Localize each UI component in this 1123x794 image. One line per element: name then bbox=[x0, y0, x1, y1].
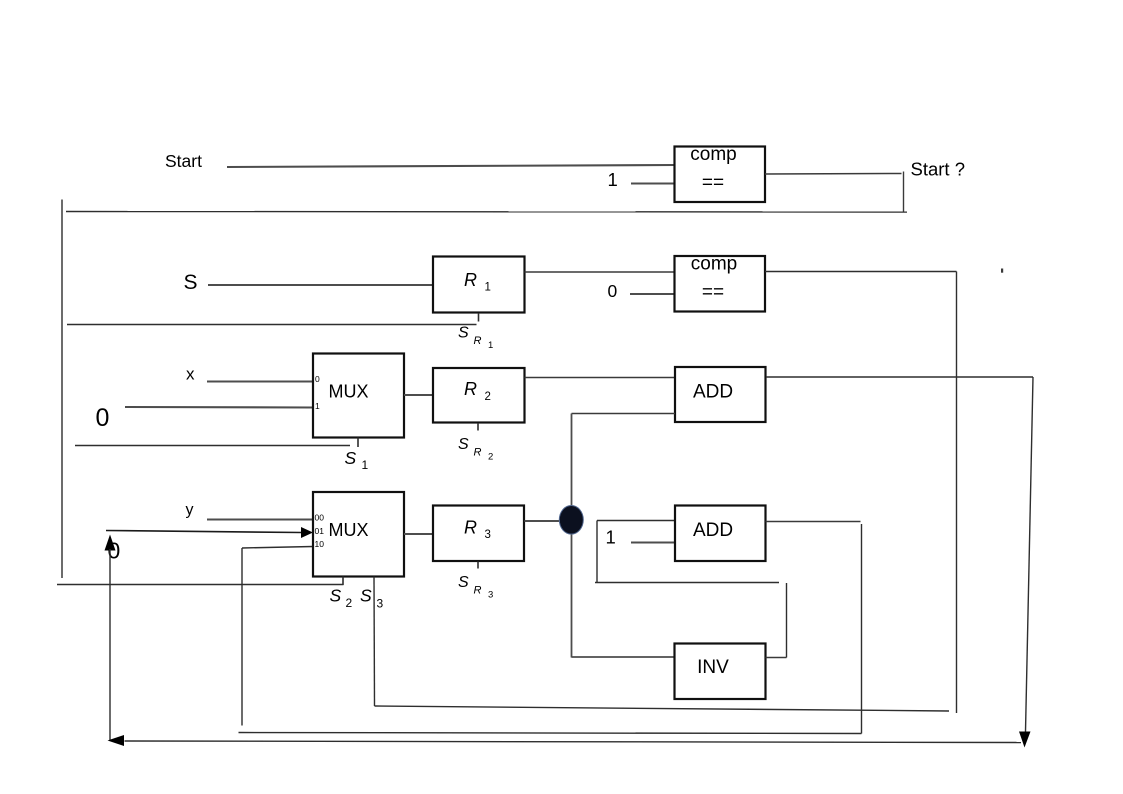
svg-text:2: 2 bbox=[488, 452, 493, 463]
MUX M1 box bbox=[313, 354, 404, 438]
wire R2 select stub bbox=[477, 423, 479, 431]
arrowhead right into MUX2 bbox=[301, 527, 313, 538]
svg-text:S: S bbox=[458, 574, 469, 591]
wire MUX2 to R3 bbox=[404, 533, 433, 535]
svg-text:S: S bbox=[458, 436, 469, 453]
svg-text:R: R bbox=[474, 585, 482, 597]
wire vertical from bottom arrow up bbox=[109, 549, 111, 741]
svg-text:R: R bbox=[464, 270, 477, 290]
svg-text:comp: comp bbox=[691, 254, 737, 275]
wire 1 to comp1 bbox=[631, 182, 675, 184]
wire 1 to ADD2 bbox=[631, 541, 675, 543]
svg-text:R: R bbox=[474, 447, 482, 459]
wire ADD1 output down bbox=[1026, 377, 1034, 732]
register R1 box bbox=[433, 257, 525, 313]
wire S1 line bbox=[75, 445, 350, 447]
wire R1 output to comp2 bbox=[525, 271, 675, 273]
arrowhead down bbox=[1019, 732, 1031, 748]
svg-text:1: 1 bbox=[485, 282, 491, 294]
ADD A1 box bbox=[675, 367, 766, 422]
comp U2 box bbox=[675, 256, 766, 312]
svg-text:1: 1 bbox=[608, 169, 618, 190]
wire comp2 feedback vertical bbox=[956, 272, 958, 714]
wire comp1 output bbox=[765, 173, 902, 176]
svg-text:R: R bbox=[464, 518, 477, 538]
svg-text:S: S bbox=[330, 586, 342, 606]
wire 0 to comp2 bbox=[630, 293, 675, 295]
ADD A2 box bbox=[675, 506, 766, 562]
svg-text:comp: comp bbox=[690, 144, 736, 165]
wire S3 feedback horizontal bbox=[375, 706, 950, 711]
svg-text:S: S bbox=[458, 324, 469, 341]
svg-text:Start: Start bbox=[165, 151, 202, 171]
stray tick mark bbox=[1001, 269, 1003, 273]
wire comp1 output corner down bbox=[903, 172, 905, 212]
wire vertical x242 bbox=[241, 548, 243, 726]
svg-text:INV: INV bbox=[697, 657, 729, 678]
wire R1 select stub bbox=[478, 313, 480, 322]
wire S input bbox=[208, 284, 433, 286]
wire bracket top to ADD2 bbox=[597, 520, 675, 522]
INV U3 box bbox=[675, 644, 766, 700]
svg-text:ADD: ADD bbox=[693, 382, 733, 403]
wire S2 line bbox=[57, 584, 344, 586]
svg-text:0: 0 bbox=[96, 404, 110, 432]
wire Start input bbox=[227, 165, 675, 167]
svg-text:1: 1 bbox=[315, 401, 320, 411]
wire R2 output to ADD1 bbox=[525, 377, 676, 379]
wire feedback into MUX2 01 bbox=[106, 531, 302, 533]
wire bottom feedback y732 bbox=[239, 733, 862, 734]
svg-text:0: 0 bbox=[608, 281, 618, 301]
svg-text:00: 00 bbox=[315, 513, 325, 523]
svg-text:3: 3 bbox=[377, 596, 384, 610]
svg-text:3: 3 bbox=[488, 590, 493, 601]
register R3 box bbox=[433, 506, 524, 562]
node junction dot bbox=[559, 506, 583, 535]
comp U1 box bbox=[675, 147, 766, 203]
wire INV output bbox=[766, 657, 787, 659]
svg-text:Start ?: Start ? bbox=[911, 159, 966, 180]
wire R3 select stub bbox=[477, 562, 479, 569]
svg-text:MUX: MUX bbox=[329, 382, 369, 402]
arrowhead left at bottom bbox=[108, 735, 125, 746]
svg-text:==: == bbox=[702, 282, 724, 303]
svg-text:x: x bbox=[186, 365, 195, 384]
svg-text:1: 1 bbox=[362, 458, 369, 472]
wire MUX1 to R2 bbox=[404, 394, 433, 396]
wire bracket vertical x597 bbox=[596, 521, 598, 584]
svg-text:1: 1 bbox=[488, 340, 493, 351]
wire y input bbox=[207, 518, 313, 520]
svg-text:y: y bbox=[186, 502, 194, 519]
svg-text:2: 2 bbox=[346, 596, 353, 610]
svg-text:ADD: ADD bbox=[693, 520, 733, 541]
wire node to INV bbox=[572, 656, 675, 658]
svg-text:S: S bbox=[184, 271, 198, 294]
wire S_R1 line bbox=[67, 324, 477, 326]
wire bottom arrow line y741 bbox=[125, 741, 1022, 743]
svg-text:S: S bbox=[360, 586, 372, 606]
wire ADD2 feedback vertical bbox=[861, 524, 863, 734]
svg-text:R: R bbox=[464, 379, 477, 399]
wire ADD2 output bbox=[766, 521, 861, 523]
svg-text:01: 01 bbox=[315, 526, 325, 536]
MUX M2 box bbox=[313, 492, 404, 577]
svg-text:MUX: MUX bbox=[329, 520, 369, 540]
wire MUX2 select stub S2 bbox=[342, 577, 344, 586]
arrowhead up at 0 bbox=[105, 535, 116, 551]
wire MUX2 10 input bbox=[242, 547, 313, 549]
register R2 box bbox=[433, 368, 525, 423]
svg-text:1: 1 bbox=[606, 527, 616, 548]
wire INV output up bbox=[786, 583, 788, 658]
wire node vertical bbox=[571, 414, 573, 658]
wire Start? feedback horizontal bbox=[66, 211, 907, 214]
svg-text:==: == bbox=[702, 172, 724, 193]
wire MUX1 select stub bbox=[357, 438, 359, 448]
svg-text:2: 2 bbox=[485, 391, 491, 403]
wire ADD1 output long bbox=[766, 376, 1033, 378]
svg-text:10: 10 bbox=[315, 539, 325, 549]
wire comp2 output bbox=[765, 271, 957, 273]
wire MUX2 select stub S3 long bbox=[373, 577, 376, 707]
wire x input bbox=[207, 380, 313, 382]
svg-text:S: S bbox=[345, 448, 357, 468]
wire left vertical bus bbox=[61, 200, 63, 579]
wire 0 to MUX1 bbox=[125, 406, 313, 409]
wire ADD1 second input bbox=[572, 413, 676, 415]
wire R3 output to node bbox=[525, 520, 566, 522]
wire bracket bottom horizontal bbox=[595, 582, 779, 584]
svg-text:3: 3 bbox=[485, 529, 491, 541]
svg-text:R: R bbox=[474, 335, 482, 347]
svg-text:0: 0 bbox=[315, 374, 320, 384]
